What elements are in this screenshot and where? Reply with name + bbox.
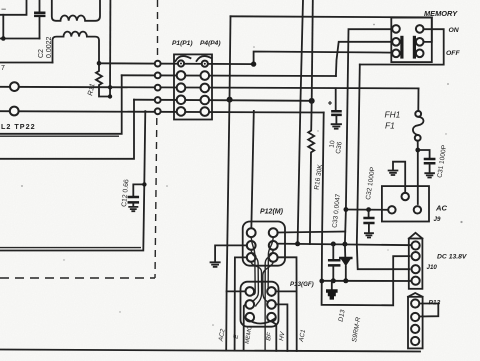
- connector P12(M) upper box: [243, 222, 285, 266]
- resistor R11: [87, 63, 110, 96]
- connector P1 pins row1: [178, 60, 184, 66]
- dashed boundary (middle segment): [155, 118, 157, 278]
- bracket hat right column: [197, 56, 212, 61]
- capacitor C32: [365, 166, 377, 233]
- svg-text:P13(GF): P13(GF): [290, 281, 314, 288]
- connector P1 pins row5: [177, 107, 186, 116]
- resistor R16: [308, 101, 324, 244]
- P13GF pins left: [246, 287, 255, 296]
- switch bar left: [400, 36, 403, 59]
- node (row4 junction): [227, 97, 233, 103]
- wire L2 (row2 down-left): [0, 75, 122, 134]
- capacitor C36: [328, 89, 344, 155]
- wire L5 (row5 down-left): [0, 111, 145, 250]
- ground (P12): [211, 262, 220, 267]
- bracket hat left column: [176, 56, 191, 61]
- wire (bottom bus): [0, 350, 420, 352]
- AC pin left: [388, 206, 395, 213]
- wire: [0, 15, 40, 39]
- wire row5 P1: [0, 111, 324, 112]
- diode D13: [338, 244, 363, 343]
- svg-text:−: −: [1, 4, 6, 14]
- ground (thick, power): [326, 281, 338, 298]
- wire (U route: node to DC pin2): [322, 113, 410, 306]
- connector DC J10: [409, 233, 423, 289]
- wire (P12 right pin1 to wire A): [278, 232, 346, 233]
- wire (P1 row5 feed to P12 pin1): [251, 111, 254, 230]
- P12 pins left: [247, 228, 256, 237]
- wire (top line to memory switch): [231, 16, 432, 17]
- wire row4 P1: [134, 100, 312, 101]
- wire bundle between connectors: [250, 237, 255, 297]
- node: [344, 207, 349, 212]
- wire (row1 riser): [254, 52, 392, 65]
- node: [108, 85, 112, 89]
- wire (P12 right pin3 to AC1 drop): [278, 257, 297, 351]
- node: [108, 94, 112, 98]
- connector AC box: [382, 186, 429, 221]
- svg-text:OFF: OFF: [446, 50, 460, 57]
- wire (P12 left pin3 to E line): [235, 257, 247, 350]
- wire (P13 pin1-pin2 wrap): [419, 304, 438, 317]
- wire B (down from switch wrap): [357, 65, 410, 270]
- ground (C31): [425, 173, 434, 177]
- wire (long vertical x229 to bottom AC2): [226, 16, 230, 350]
- wire (main node line y244): [276, 244, 413, 246]
- wire (AC top pin to ground): [393, 162, 405, 193]
- connector P1/P4 box: [174, 54, 212, 119]
- node: [342, 242, 347, 247]
- wire (AC feed line y209): [345, 209, 389, 211]
- wire: [0, 62, 53, 64]
- connector pin (left edge circle 2): [10, 107, 19, 116]
- small pins left of P1: [155, 61, 161, 67]
- transformer T1 secondary: [53, 32, 100, 64]
- ground (AC): [389, 171, 398, 176]
- svg-text:P12(M): P12(M): [260, 209, 284, 216]
- svg-text:J10: J10: [427, 264, 438, 271]
- svg-text:L2 TP22: L2 TP22: [1, 122, 36, 131]
- wire (switch row2 left leg): [336, 42, 392, 76]
- svg-text:DC 13.8V: DC 13.8V: [437, 254, 468, 261]
- node: [319, 279, 324, 284]
- node: [366, 207, 371, 212]
- capacitor C2: [35, 0, 53, 58]
- node: [331, 242, 336, 247]
- AC pin right: [414, 206, 421, 213]
- svg-text:ON: ON: [449, 27, 460, 34]
- AC pin top: [402, 193, 409, 200]
- wire (long vertical from top): [109, 0, 111, 97]
- connector P13(GF) lower box: [241, 282, 279, 327]
- transformer T1 primary: [52, 0, 100, 21]
- wire (lower pin1 right to AC1): [276, 290, 297, 292]
- node: [331, 278, 336, 283]
- wire A (switch row1 left, down to AC line): [345, 29, 392, 244]
- svg-text:C2: C2: [38, 49, 45, 58]
- wire row1 P1: [99, 62, 254, 65]
- box U (top-left partial block): [0, 0, 27, 15]
- svg-text:MEMORY: MEMORY: [424, 9, 458, 18]
- wire (lower pin1 left to AC2 line): [227, 290, 246, 292]
- node (C12 tap): [142, 182, 146, 186]
- wire (switch wrap right side): [360, 17, 444, 64]
- connector pin (left edge circle 1): [10, 82, 19, 91]
- ground (C12): [129, 207, 137, 211]
- node (junction at box stem): [1, 36, 6, 41]
- svg-text:FH1: FH1: [385, 110, 401, 120]
- wire (vertical x312 to R16): [312, 0, 313, 101]
- capacitor C33: [329, 244, 339, 281]
- connector P1 pins row4: [177, 96, 186, 105]
- switch MEMORY box: [391, 18, 432, 63]
- svg-text:7: 7: [1, 65, 5, 72]
- svg-text:P4(P4): P4(P4): [200, 40, 221, 47]
- svg-text:AC: AC: [435, 204, 447, 213]
- wire row2 P1: [122, 74, 336, 77]
- svg-text:J9: J9: [434, 216, 441, 223]
- node: [343, 278, 348, 283]
- fuse FH1 F1: [385, 88, 424, 140]
- capacitor C12: [121, 179, 145, 207]
- switch bar right: [413, 36, 416, 59]
- node (R16 top junction): [309, 98, 315, 104]
- switch contacts left column: [392, 25, 400, 33]
- connector P13: [408, 293, 423, 348]
- node (junction R11 top): [97, 61, 102, 66]
- svg-text:F1: F1: [385, 121, 395, 131]
- wire L4 (row4 down-left): [0, 100, 134, 159]
- wire (long vertical x300): [298, 0, 303, 244]
- capacitor C31: [418, 144, 448, 178]
- scan specks: [21, 24, 463, 326]
- wire (P12 left pin2 to ground): [215, 245, 247, 261]
- wire (lower pin3 right, BF drop): [272, 321, 277, 350]
- wire (lower line y281 to DC pin4): [322, 280, 413, 282]
- wire row3 P1 (to fuse): [0, 87, 419, 89]
- svg-text:10: 10: [329, 140, 337, 149]
- dashed boundary (top segment): [157, 0, 159, 55]
- switch contacts right column: [416, 25, 424, 33]
- svg-text:P13: P13: [429, 300, 441, 307]
- node (row1 corner): [251, 61, 256, 66]
- ground (C36): [332, 124, 341, 129]
- connector P1 pins row3: [177, 83, 186, 92]
- connector P1 pins row2: [177, 71, 186, 80]
- dashed boundary (bottom segment): [0, 277, 155, 279]
- ground (C32): [365, 233, 373, 237]
- node (fuse/C31 junction): [415, 148, 420, 153]
- P13GF pins right: [267, 287, 276, 296]
- node: [295, 241, 300, 246]
- arc inside lower box: [246, 319, 275, 324]
- wire (lower pin2 right, HV drop): [276, 304, 288, 351]
- wire (fuse to AC connector): [417, 141, 419, 204]
- P12 pins right: [269, 228, 278, 237]
- wire (lower pin2 left, MEMO drop): [244, 304, 246, 350]
- svg-text:P1(P1): P1(P1): [172, 40, 193, 47]
